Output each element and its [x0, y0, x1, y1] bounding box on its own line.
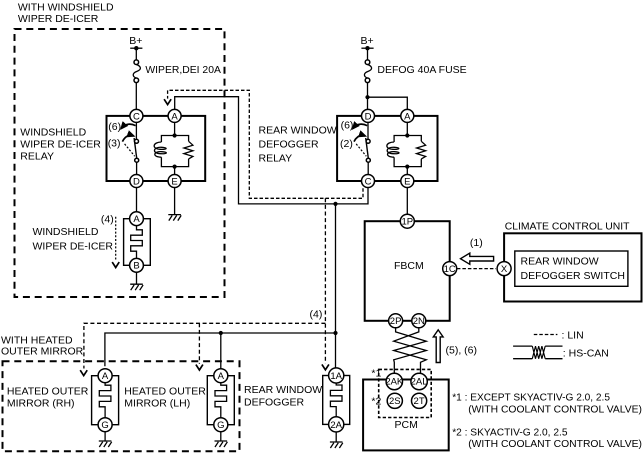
- wire B+ to fuse: [135, 48, 137, 60]
- LIN dashed branch to mirrors: [84, 323, 326, 368]
- twisted pair HS-CAN wire B (2N to PCM): [394, 328, 427, 374]
- svg-text:D: D: [133, 176, 140, 187]
- wire G RH to ground: [104, 432, 106, 441]
- pin G mirror LH: [214, 418, 228, 432]
- LIN dotted: K2 C to K1 A: [168, 90, 363, 198]
- pin 1P: [400, 214, 414, 228]
- ground below de-icer B: [130, 284, 143, 290]
- svg-text:RELAY: RELAY: [20, 151, 54, 163]
- twisted pair HS-CAN wire A (2P to PCM): [394, 328, 427, 374]
- module FBCM: [365, 221, 450, 321]
- label: WINDSHIELD WIPER DE-ICER: [33, 226, 114, 253]
- wire fuse to relay C: [135, 83, 137, 110]
- pin 1A defogger: [329, 368, 344, 383]
- svg-text:A: A: [133, 214, 140, 225]
- svg-text:DEFOGGER: DEFOGGER: [244, 396, 305, 408]
- resistor R1: [184, 141, 193, 159]
- wire B+ to fuse: [367, 48, 369, 60]
- svg-text:: HS-CAN: : HS-CAN: [563, 347, 609, 359]
- resistor R2: [417, 141, 426, 159]
- label: HEATED OUTER MIRROR (LH): [124, 385, 206, 409]
- pin E K2: [401, 175, 414, 188]
- pin G mirror RH: [98, 418, 112, 432]
- node B+ left: [129, 35, 142, 50]
- fuse WIPER,DEI 20A: [133, 60, 221, 83]
- label: REAR WINDOW DEFOGGER: [244, 384, 322, 408]
- relay K1 box: windshield wiper de-icer relay: [107, 116, 206, 181]
- svg-text:C: C: [365, 176, 372, 187]
- svg-text:CLIMATE CONTROL UNIT: CLIMATE CONTROL UNIT: [505, 220, 630, 232]
- svg-text:(4): (4): [101, 214, 114, 226]
- wire K2 A down: [406, 122, 408, 135]
- switch contact upper K1: [135, 139, 139, 143]
- wire B to ground: [136, 272, 138, 284]
- svg-text:(6): (6): [108, 121, 121, 133]
- svg-text:REAR WINDOW: REAR WINDOW: [259, 125, 337, 137]
- svg-text:2AL: 2AL: [411, 377, 428, 388]
- node B+ right: [361, 35, 374, 50]
- wire K1 A down: [174, 122, 176, 135]
- svg-text:X: X: [501, 264, 508, 275]
- svg-text:2S: 2S: [389, 396, 401, 407]
- pin B de-icer: [130, 258, 144, 272]
- switch blade K2: [366, 138, 369, 158]
- svg-text:WIPER DE-ICER: WIPER DE-ICER: [18, 13, 99, 25]
- LIN dashed drop to LH mirror: [198, 323, 200, 363]
- wire switch to K2 C: [367, 162, 369, 174]
- svg-text:(2): (2): [340, 138, 353, 150]
- svg-text:B+: B+: [361, 35, 374, 47]
- arrowhead into K1 pin A: [164, 99, 171, 104]
- module PCM: [363, 380, 449, 451]
- svg-text:2T: 2T: [414, 396, 425, 407]
- svg-text:E: E: [404, 176, 410, 187]
- wire: feed down to defogger 1A: [335, 333, 337, 368]
- label: HEATED OUTER MIRROR (RH): [7, 385, 89, 409]
- svg-text:1A: 1A: [330, 371, 342, 382]
- switch alternate position (dashed) K1: [125, 144, 135, 156]
- switch contact lower K2: [366, 158, 370, 162]
- svg-text:WINDSHIELD: WINDSHIELD: [33, 226, 99, 238]
- pin 2P: [389, 314, 403, 328]
- wire: junction down to defogger feed: [335, 204, 337, 333]
- arrowhead at de-icer: [112, 262, 119, 267]
- wire fuse to relay D: [367, 83, 369, 110]
- pin 2T: [412, 393, 427, 408]
- junction K2 top: [405, 133, 409, 137]
- svg-text:*2: *2: [371, 396, 381, 408]
- svg-text:A: A: [171, 111, 178, 122]
- wire switch to K1 D: [136, 162, 138, 174]
- wire G LH to ground: [220, 432, 222, 441]
- svg-text:MIRROR (LH): MIRROR (LH): [124, 398, 190, 410]
- switch blade K1: [134, 138, 137, 158]
- svg-text:FBCM: FBCM: [394, 260, 424, 272]
- wire K1 E to ground: [174, 188, 176, 215]
- wire K1 D to de-icer A: [136, 188, 138, 212]
- pin C: [130, 109, 143, 122]
- junction K2 bottom: [405, 165, 409, 169]
- pin E: [168, 175, 181, 188]
- junction defogger feed: [333, 331, 337, 335]
- wire K2 E up: [406, 167, 408, 175]
- svg-text:WIPER DE-ICER: WIPER DE-ICER: [33, 241, 114, 253]
- svg-text:(3): (3): [108, 138, 121, 150]
- node X: [497, 262, 511, 276]
- svg-text:G: G: [101, 420, 108, 431]
- heated outer mirror LH element: [207, 376, 234, 425]
- svg-text:RELAY: RELAY: [259, 152, 293, 164]
- svg-text:A: A: [404, 111, 411, 122]
- wire junction to relay A: [368, 97, 408, 109]
- note *2: [452, 426, 642, 450]
- coil L1: [154, 142, 166, 157]
- dashed enclosure: with heated outer mirror: [3, 361, 240, 451]
- switch: rear window defogger switch: [515, 251, 628, 286]
- legend: HS-CAN twisted pair symbol: [513, 346, 609, 359]
- coil-resistor frame K1: [161, 136, 188, 167]
- svg-text:REAR WINDOW: REAR WINDOW: [244, 384, 322, 396]
- junction LH mirror feed: [219, 331, 223, 335]
- svg-text:(4): (4): [310, 309, 323, 321]
- module: climate control unit: [504, 220, 641, 301]
- svg-text:REAR WINDOW: REAR WINDOW: [521, 255, 599, 267]
- pin D K2: [362, 109, 375, 122]
- svg-text:D: D: [365, 111, 372, 122]
- arrowhead into RH mirror: [80, 370, 87, 375]
- svg-text:MIRROR (RH): MIRROR (RH): [7, 398, 75, 410]
- pin 2S: [387, 393, 402, 408]
- block arrow (1): [461, 237, 494, 264]
- ground below K1 E: [168, 215, 181, 221]
- svg-text:2AK: 2AK: [385, 377, 404, 388]
- svg-text:C: C: [133, 111, 140, 122]
- arrowhead into LH mirror: [196, 365, 203, 370]
- svg-text:(WITH COOLANT CONTROL VALVE): (WITH COOLANT CONTROL VALVE): [468, 404, 642, 416]
- pin A K2: [401, 109, 414, 122]
- junction K1 top: [173, 133, 177, 137]
- wire K2 E to FBCM 1P: [406, 188, 408, 215]
- wire: feed left to mirrors: [105, 333, 336, 366]
- pin 1C: [443, 262, 457, 276]
- svg-text:B+: B+: [129, 35, 142, 47]
- label: WINDSHIELD WIPER DE-ICER RELAY: [20, 126, 101, 162]
- svg-text:DEFOGGER SWITCH: DEFOGGER SWITCH: [521, 270, 625, 282]
- coil L2: [387, 142, 399, 157]
- svg-text:*1: *1: [371, 368, 381, 380]
- note: WITH WINDSHIELD WIPER DE-ICER: [18, 2, 114, 25]
- fuse DEFOG 40A FUSE: [364, 60, 466, 83]
- legend: LIN dashed sample: [534, 329, 584, 341]
- junction below right fuse: [365, 95, 369, 99]
- wire K1 E up: [174, 167, 176, 175]
- arrow (6) K2: [353, 124, 367, 128]
- pin A mirror RH: [98, 369, 112, 383]
- LIN dotted: 1C to X: [457, 268, 496, 270]
- svg-text:PCM: PCM: [395, 419, 418, 431]
- pin A de-icer: [130, 212, 144, 226]
- svg-text:1P: 1P: [401, 217, 413, 228]
- wire: K2 C to K1 A (solid): [175, 97, 368, 204]
- pin 2A defogger: [329, 417, 344, 432]
- ground below defogger 2A: [330, 442, 343, 448]
- dashed enclosure: with windshield wiper de-icer: [15, 29, 225, 297]
- svg-text:WIPER,DEI 20A: WIPER,DEI 20A: [145, 64, 221, 76]
- pin A: [168, 109, 181, 122]
- svg-text:: LIN: : LIN: [562, 329, 584, 341]
- svg-text:WITH HEATED: WITH HEATED: [1, 334, 73, 346]
- wire 2A to ground: [335, 432, 337, 442]
- LIN dashed drop (4): [324, 198, 326, 363]
- LIN dotted arrow at de-icer: [115, 217, 117, 261]
- junction on C-A wire: [333, 202, 337, 206]
- note: WITH HEATED OUTER MIRROR: [1, 334, 84, 357]
- arrowhead into defogger 1A: [322, 364, 329, 369]
- svg-text:G: G: [217, 420, 224, 431]
- junction K1 bottom: [173, 165, 177, 169]
- svg-text:(5), (6): (5), (6): [446, 344, 478, 356]
- svg-text:(WITH COOLANT CONTROL VALVE): (WITH COOLANT CONTROL VALVE): [468, 438, 642, 450]
- arrow (2) K2: [354, 135, 365, 141]
- wire: junction down to LH mirror A: [220, 333, 222, 368]
- wire K1 C to switch: [135, 122, 137, 139]
- svg-text:WITH WINDSHIELD: WITH WINDSHIELD: [18, 2, 114, 14]
- svg-text:(1): (1): [470, 237, 483, 249]
- svg-text:*2 : SKYACTIV-G 2.0, 2.5: *2 : SKYACTIV-G 2.0, 2.5: [452, 426, 567, 438]
- arrow (6) K1: [121, 124, 135, 128]
- svg-text:DEFOGGER: DEFOGGER: [259, 138, 320, 150]
- rear window defogger element: [323, 376, 350, 425]
- switch alternate position (dashed) K2: [356, 144, 366, 156]
- svg-text:1C: 1C: [444, 264, 456, 275]
- heated outer mirror RH element: [92, 376, 119, 425]
- heater element: windshield wiper de-icer: [124, 219, 151, 266]
- block arrow (5),(6): [433, 330, 477, 363]
- pin 2AL: [411, 373, 428, 389]
- svg-text:DEFOG 40A FUSE: DEFOG 40A FUSE: [377, 64, 466, 76]
- note *1: [452, 391, 642, 415]
- dashed pin group box PCM: [379, 369, 432, 417]
- svg-text:*1 : EXCEPT SKYACTIV-G 2.0, 2.: *1 : EXCEPT SKYACTIV-G 2.0, 2.5: [452, 391, 610, 403]
- svg-text:A: A: [218, 371, 225, 382]
- svg-text:B: B: [133, 261, 139, 272]
- svg-text:2P: 2P: [390, 316, 402, 327]
- svg-text:(6): (6): [341, 119, 354, 131]
- arrow (3) K1: [122, 135, 133, 141]
- svg-text:2N: 2N: [413, 316, 425, 327]
- switch contact lower K1: [135, 158, 139, 162]
- svg-text:2A: 2A: [330, 420, 342, 431]
- svg-text:OUTER MIRROR: OUTER MIRROR: [1, 346, 84, 358]
- switch contact upper K2: [366, 139, 370, 143]
- svg-text:WINDSHIELD: WINDSHIELD: [20, 126, 86, 138]
- pin A mirror LH: [214, 369, 228, 383]
- pin C K2: [362, 175, 375, 188]
- wire K2 D to switch: [367, 122, 369, 139]
- coil-resistor frame K2: [394, 136, 421, 167]
- ground below LH mirror: [215, 441, 228, 447]
- svg-text:E: E: [171, 176, 177, 187]
- relay K2 box: rear window defogger relay: [337, 116, 437, 181]
- svg-text:WIPER DE-ICER: WIPER DE-ICER: [20, 139, 101, 151]
- svg-text:HEATED OUTER: HEATED OUTER: [7, 385, 89, 397]
- ground below RH mirror: [99, 441, 112, 447]
- svg-text:HEATED OUTER: HEATED OUTER: [124, 385, 206, 397]
- pin 2N: [412, 314, 426, 328]
- svg-text:A: A: [102, 371, 109, 382]
- pin 2AK: [385, 373, 404, 389]
- pin D: [130, 175, 143, 188]
- label: REAR WINDOW DEFOGGER RELAY: [259, 125, 337, 165]
